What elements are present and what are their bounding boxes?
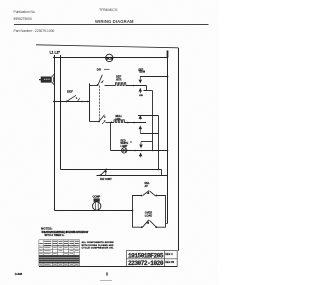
node L2 top junction	[60, 57, 62, 59]
svg-text:HTR: HTR	[116, 78, 121, 82]
svg-text:191501BF205: 191501BF205	[128, 252, 164, 259]
svg-text:HTR: HTR	[116, 118, 121, 121]
diagram top border line	[36, 45, 178, 48]
wire riser to lamp line	[110, 123, 112, 151]
node relay box junction	[132, 210, 134, 212]
wire defrost line	[55, 101, 90, 103]
svg-text:Publication No.: Publication No.	[14, 10, 36, 14]
wire riser	[89, 84, 91, 122]
wire stub mid T	[138, 115, 159, 117]
node bus1 thermostat junction	[167, 76, 169, 78]
wire step down from branch end	[144, 86, 147, 91]
svg-text:NOTES:: NOTES:	[41, 227, 52, 231]
svg-text:COMP: COMP	[93, 195, 101, 199]
svg-text:WITH DOORS CLOSED AND: WITH DOORS CLOSED AND	[82, 244, 114, 247]
lamp indicator	[122, 148, 127, 153]
svg-text:ALL COMPONENTS SHOWN: ALL COMPONENTS SHOWN	[82, 241, 114, 244]
svg-text:Part Number : 223079-1000: Part Number : 223079-1000	[14, 29, 55, 33]
bus 1 vertical	[167, 51, 169, 224]
svg-text:5995275000: 5995275000	[14, 17, 33, 21]
wire vertical mid A	[152, 91, 154, 151]
wire after coil	[126, 85, 147, 87]
node L1 top junction	[53, 57, 55, 59]
switch freezer control	[99, 174, 101, 176]
svg-text:WITH A TIMER A.: WITH A TIMER A.	[45, 234, 65, 237]
svg-text:AY: AY	[145, 184, 149, 188]
wire L1 vertical	[54, 55, 56, 211]
wire lower return	[97, 175, 162, 177]
svg-text:REV. C: REV. C	[166, 254, 174, 256]
wire step connector	[162, 170, 168, 176]
switch lower branch	[90, 121, 100, 123]
wire vertical mid B	[158, 116, 160, 170]
wire vertical x99 dashed	[99, 86, 101, 122]
bus1 top tick	[167, 51, 169, 58]
wire bus1 bottom corner	[166, 223, 168, 225]
svg-text:LOAD: LOAD	[145, 214, 152, 218]
footer small mark	[100, 280, 112, 282]
wire after lower coil	[124, 122, 146, 124]
svg-text:L1 L2*: L1 L2*	[50, 51, 61, 55]
node def junctions	[53, 101, 55, 103]
svg-text:TFB64KCG: TFB64KCG	[99, 8, 118, 12]
compressor motor	[93, 202, 101, 210]
wire elbow to mid B	[141, 133, 159, 135]
wire stub thermostat to bus1	[141, 76, 168, 78]
wire upper branch	[105, 85, 116, 87]
svg-text:DEF: DEF	[67, 90, 73, 94]
table header marks	[40, 241, 79, 245]
table cell marks rows	[40, 248, 79, 265]
node lower coil junctions	[127, 122, 129, 124]
node bus1 return junction	[166, 175, 168, 177]
footer rule	[39, 266, 177, 268]
svg-text:WIRING DIAGRAM: WIRING DIAGRAM	[95, 19, 134, 24]
node lamp line junctions	[134, 150, 136, 152]
header rule	[14, 24, 209, 26]
wire L2 branch	[61, 169, 162, 171]
node mid B L2 junction	[158, 169, 160, 171]
heater coil lower	[114, 120, 124, 123]
svg-text:FRZ CONT: FRZ CONT	[100, 179, 112, 181]
evap thermostat arrows	[139, 116, 141, 119]
wire lamp line	[111, 150, 168, 152]
wire bottom line	[55, 210, 133, 212]
svg-text:GLB: GLB	[106, 56, 113, 60]
power plug	[41, 77, 52, 83]
notes table	[39, 240, 80, 266]
wire top lamp line	[55, 57, 168, 59]
wire lower branch	[106, 122, 115, 124]
lamp GLB	[106, 54, 113, 61]
title block	[127, 251, 178, 267]
node plug-L1 junctions	[53, 74, 55, 76]
node mid A lamp junction	[152, 150, 154, 152]
node heater line junction	[133, 85, 135, 87]
svg-text:CYCLE COMPRESSOR ON.: CYCLE COMPRESSOR ON.	[82, 248, 114, 250]
heater coil DEF HTR	[116, 83, 126, 86]
compressor cap	[94, 198, 100, 201]
svg-text:TERM: TERM	[139, 72, 146, 74]
wire L2 vertical	[60, 55, 62, 170]
svg-text:D-698: D-698	[15, 272, 23, 276]
svg-text:REV. B0: REV. B0	[166, 262, 175, 264]
wire stub to door switch	[90, 85, 98, 87]
switch DEF blade	[67, 95, 77, 101]
relay box	[133, 196, 142, 211]
table dark band	[39, 255, 80, 263]
paper noise	[0, 0, 218, 285]
lamp thermostat arrows	[141, 141, 153, 143]
defrost thermostat arrows	[139, 76, 141, 83]
node lower branch junction	[111, 122, 113, 124]
right bus 2 (from top corner)	[178, 48, 180, 251]
